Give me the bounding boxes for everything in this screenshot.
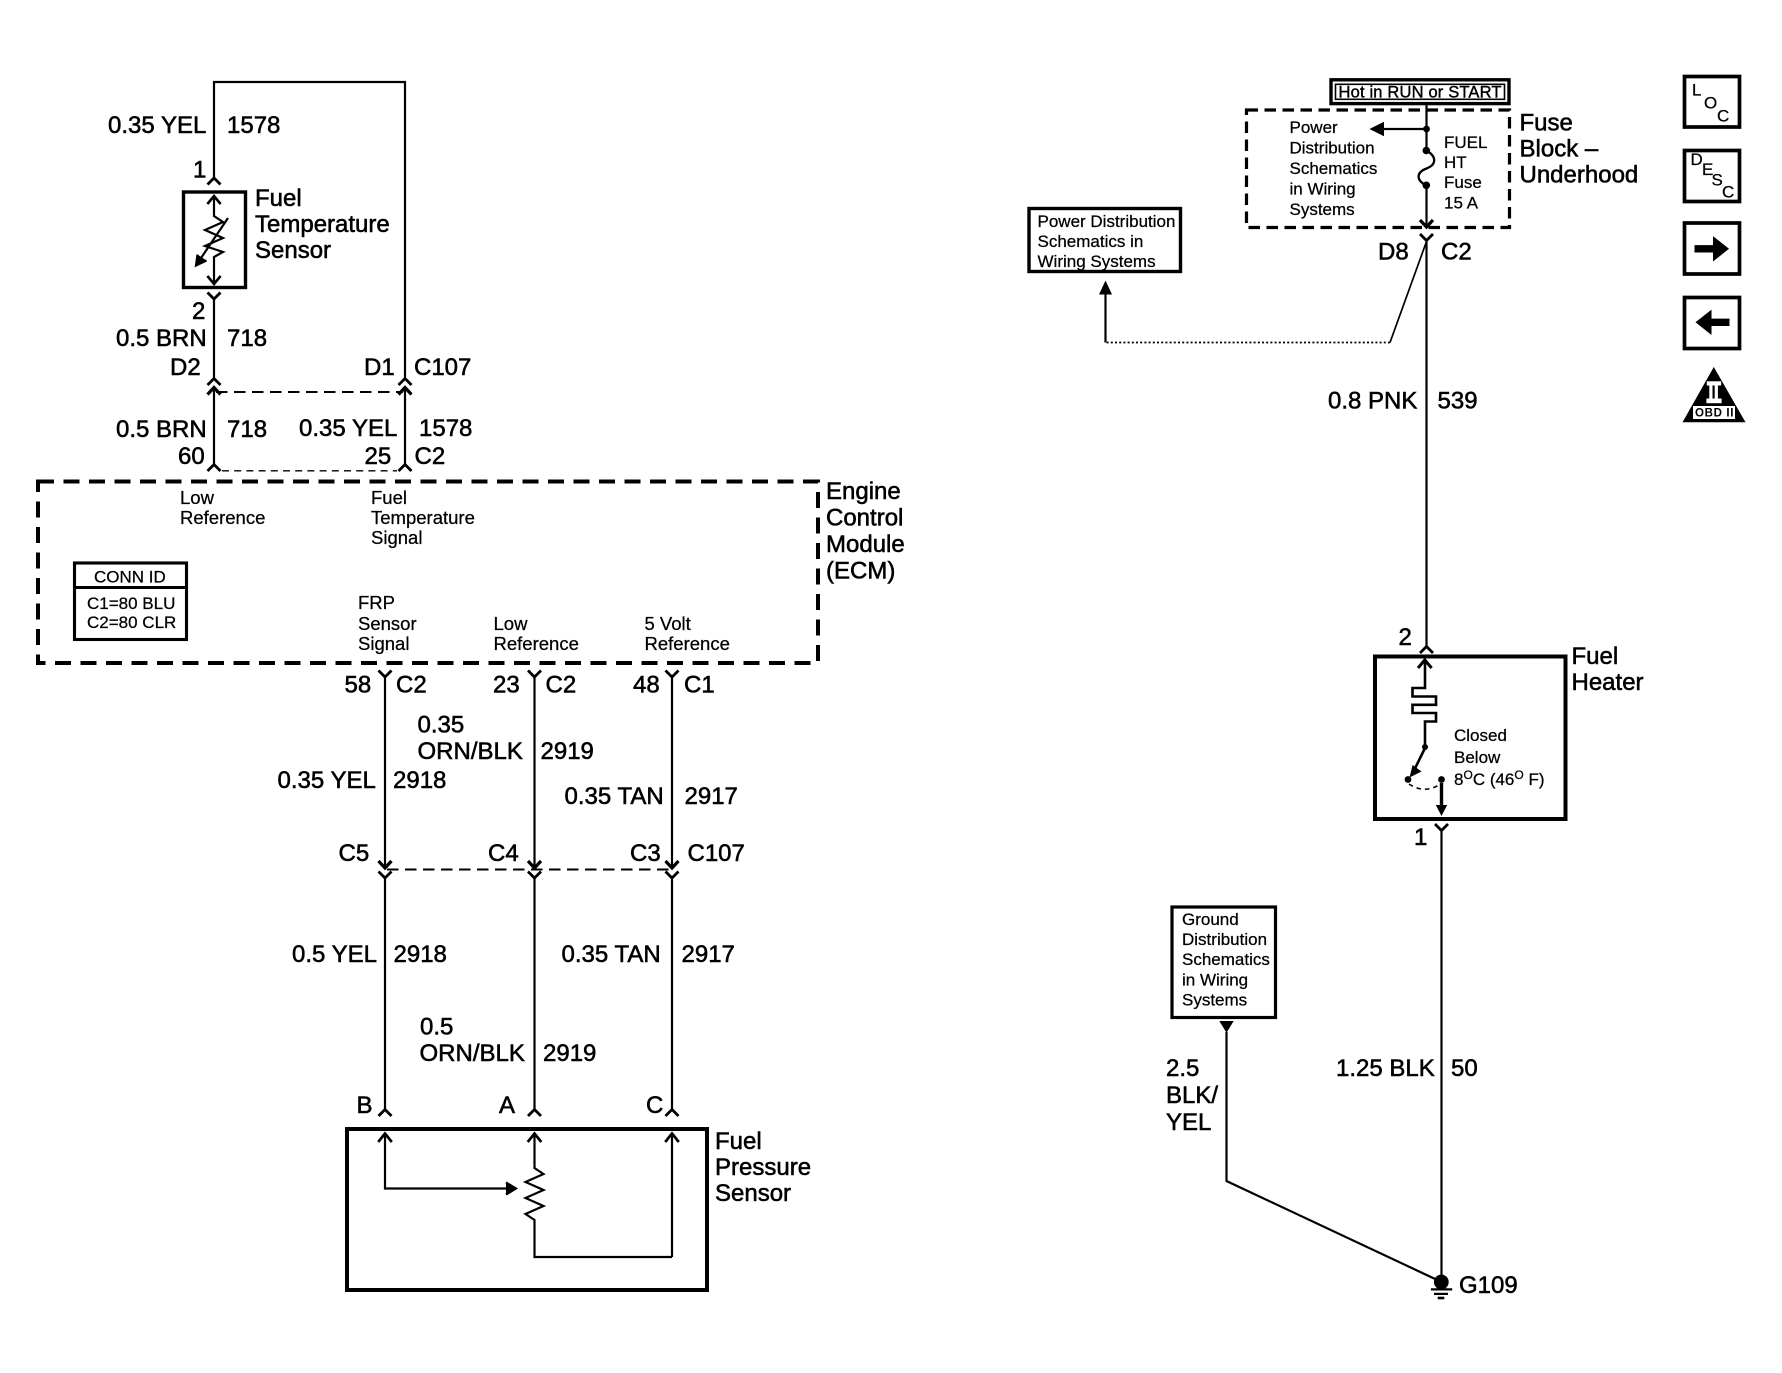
svg-text:C107: C107 <box>414 354 471 381</box>
svg-text:in Wiring: in Wiring <box>1290 180 1356 199</box>
fuse FUEL HT 15A <box>1423 147 1431 155</box>
CONN ID table <box>75 563 187 640</box>
svg-text:2918: 2918 <box>394 941 447 968</box>
svg-text:C107: C107 <box>688 840 745 867</box>
svg-text:5 Volt: 5 Volt <box>645 613 691 634</box>
connector caret pin A <box>528 1110 541 1117</box>
svg-text:Systems: Systems <box>1182 991 1247 1010</box>
svg-text:ORN/BLK: ORN/BLK <box>420 1040 525 1067</box>
svg-text:A: A <box>499 1092 515 1119</box>
svg-text:0.35 TAN: 0.35 TAN <box>562 941 661 968</box>
thermistor symbol <box>196 196 228 284</box>
connector caret pin 25 <box>399 465 412 472</box>
svg-text:Fuse: Fuse <box>1520 110 1573 137</box>
svg-text:1.25 BLK: 1.25 BLK <box>1336 1055 1435 1082</box>
svg-text:Systems: Systems <box>1290 200 1355 219</box>
svg-text:Distribution: Distribution <box>1182 930 1267 949</box>
svg-text:58: 58 <box>345 672 372 699</box>
connector fork D8 <box>1420 234 1433 241</box>
connector fork pin 48 <box>666 671 679 678</box>
svg-text:C2: C2 <box>415 443 446 470</box>
svg-text:Power Distribution: Power Distribution <box>1038 212 1176 231</box>
fuel heater box <box>1375 657 1566 820</box>
svg-text:48: 48 <box>633 672 660 699</box>
svg-text:Engine: Engine <box>826 478 901 505</box>
svg-text:OBD II: OBD II <box>1695 408 1734 420</box>
svg-text:25: 25 <box>365 443 392 470</box>
svg-text:Temperature: Temperature <box>371 507 475 528</box>
svg-text:Signal: Signal <box>358 633 409 654</box>
fuel temperature sensor box <box>184 192 246 288</box>
in-line connector C107 dashed line (lower) <box>387 869 670 871</box>
svg-text:1: 1 <box>193 157 206 184</box>
svg-text:1: 1 <box>1414 824 1427 851</box>
svg-text:O: O <box>1704 94 1717 113</box>
wire: D1 to ECM pin 25 <box>404 387 406 465</box>
connector C107 upper: caret D2 <box>208 379 221 386</box>
svg-text:Fuel: Fuel <box>371 487 407 508</box>
wire 2917 lower <box>671 878 673 1110</box>
icon arrow right <box>1685 223 1740 274</box>
in-line connector C107 dashed line (upper) <box>216 391 403 393</box>
svg-text:50: 50 <box>1451 1055 1478 1082</box>
svg-text:2917: 2917 <box>682 941 735 968</box>
ECM connector C2 thin dashed line <box>222 470 397 472</box>
svg-text:Reference: Reference <box>180 507 265 528</box>
FPS internal wire B with up arrow and right arrow <box>378 1134 392 1143</box>
svg-text:Reference: Reference <box>645 633 730 654</box>
svg-text:Power: Power <box>1290 118 1339 137</box>
wire 2918 upper <box>384 677 386 866</box>
wire 2918 lower <box>384 878 386 1110</box>
connector fork pin 23 <box>528 671 541 678</box>
svg-text:Fuel: Fuel <box>1572 643 1619 670</box>
svg-text:D8: D8 <box>1378 239 1409 266</box>
wire: D2 to ECM pin 60 <box>213 387 215 465</box>
svg-text:C2: C2 <box>1441 239 1472 266</box>
svg-text:0.5 BRN: 0.5 BRN <box>116 416 207 443</box>
svg-text:BLK/: BLK/ <box>1166 1082 1218 1109</box>
svg-text:C2: C2 <box>546 672 577 699</box>
svg-text:2.5: 2.5 <box>1166 1055 1199 1082</box>
connector caret pin C <box>666 1110 679 1117</box>
power distribution schematics ref box <box>1029 209 1181 272</box>
wire 2919 lower <box>533 878 535 1110</box>
fuse block dashed box <box>1247 110 1510 228</box>
svg-text:C3: C3 <box>630 840 661 867</box>
wire: fuel temp sensor pin2 to D2 <box>213 299 215 378</box>
svg-text:C: C <box>1722 183 1734 202</box>
svg-text:0.5 YEL: 0.5 YEL <box>292 941 377 968</box>
heater element <box>1413 661 1437 748</box>
branch arrow to power distribution text <box>1383 128 1424 130</box>
svg-text:15 A: 15 A <box>1444 194 1479 213</box>
FPS internal wire C <box>665 1134 679 1143</box>
wire 50 to ground <box>1440 831 1442 1283</box>
svg-text:0.35 TAN: 0.35 TAN <box>565 783 664 810</box>
icon LOC <box>1685 77 1740 128</box>
svg-text:2: 2 <box>192 298 205 325</box>
svg-text:Sensor: Sensor <box>255 237 331 264</box>
svg-text:CONN ID: CONN ID <box>94 568 166 587</box>
svg-text:718: 718 <box>227 416 267 443</box>
svg-text:Fuse: Fuse <box>1444 173 1482 192</box>
svg-text:C: C <box>1717 107 1729 126</box>
branch horizontal dotted <box>1106 342 1391 344</box>
svg-text:G109: G109 <box>1459 1272 1518 1299</box>
svg-text:C1: C1 <box>684 672 715 699</box>
svg-text:Temperature: Temperature <box>255 211 390 238</box>
icon DESC <box>1685 151 1740 202</box>
connector fork pin 1 <box>1435 824 1448 831</box>
svg-text:2917: 2917 <box>685 783 738 810</box>
svg-text:L: L <box>1692 81 1701 100</box>
svg-text:539: 539 <box>1438 388 1478 415</box>
svg-text:Block –: Block – <box>1520 136 1599 163</box>
wire fuse to D8 with arrow <box>1425 186 1427 227</box>
svg-text:C1=80 BLU: C1=80 BLU <box>87 594 175 613</box>
triangle under ground ref box <box>1219 1021 1233 1033</box>
svg-text:Sensor: Sensor <box>715 1180 791 1207</box>
connector C107 upper: arrow up D1 <box>399 388 412 395</box>
svg-text:2918: 2918 <box>393 767 446 794</box>
wire 2.5 BLK/YEL <box>1227 1032 1442 1282</box>
wire 2919 upper <box>533 677 535 866</box>
wire 539 <box>1425 242 1427 647</box>
svg-text:in Wiring: in Wiring <box>1182 971 1248 990</box>
thermal switch <box>1422 744 1428 750</box>
connector caret pin 2 <box>1420 647 1433 654</box>
svg-text:FRP: FRP <box>358 592 395 613</box>
svg-text:Reference: Reference <box>494 633 579 654</box>
svg-text:2919: 2919 <box>541 738 594 765</box>
ground distribution ref box <box>1172 907 1276 1018</box>
svg-text:Module: Module <box>826 531 905 558</box>
svg-text:C2=80 CLR: C2=80 CLR <box>87 613 176 632</box>
wire 2917 upper <box>671 677 673 866</box>
switch output arrow down <box>1440 783 1443 807</box>
svg-text:Schematics: Schematics <box>1182 950 1270 969</box>
svg-text:D2: D2 <box>170 354 201 381</box>
svg-text:0.8 PNK: 0.8 PNK <box>1328 388 1417 415</box>
svg-text:Low: Low <box>180 487 215 508</box>
svg-text:(ECM): (ECM) <box>826 558 895 585</box>
ECM dashed box <box>38 482 818 664</box>
connector fork pin 2 <box>208 293 221 300</box>
svg-text:Hot in RUN or START: Hot in RUN or START <box>1339 84 1502 102</box>
svg-text:D1: D1 <box>364 354 395 381</box>
svg-text:B: B <box>357 1092 373 1119</box>
svg-text:Pressure: Pressure <box>715 1154 811 1181</box>
connector caret pin 1 <box>208 178 221 185</box>
svg-text:C: C <box>646 1092 663 1119</box>
svg-text:23: 23 <box>493 672 520 699</box>
svg-text:0.35: 0.35 <box>418 712 465 739</box>
svg-text:C5: C5 <box>339 840 370 867</box>
ground G109 <box>1434 1275 1449 1290</box>
svg-text:1578: 1578 <box>419 415 472 442</box>
svg-text:Sensor: Sensor <box>358 613 417 634</box>
svg-text:HT: HT <box>1444 153 1467 172</box>
connector C107 lower: arrows down <box>379 861 392 868</box>
svg-text:Control: Control <box>826 505 903 532</box>
connector C107 upper: caret D1 <box>399 379 412 386</box>
svg-text:ORN/BLK: ORN/BLK <box>418 738 523 765</box>
svg-text:Low: Low <box>494 613 529 634</box>
branch vertical with arrowhead to box <box>1104 294 1106 343</box>
fuel pressure sensor box <box>347 1129 707 1290</box>
icon OBD II triangle <box>1683 367 1746 422</box>
svg-text:Signal: Signal <box>371 527 422 548</box>
FPS internal resistor wire A <box>528 1134 542 1143</box>
svg-text:YEL: YEL <box>1166 1109 1211 1136</box>
branch diagonal to power distribution ref box <box>1390 242 1427 343</box>
connector caret pin B <box>379 1110 392 1117</box>
svg-text:Fuel: Fuel <box>255 185 302 212</box>
junction dot <box>1423 126 1430 133</box>
svg-text:FUEL: FUEL <box>1444 133 1487 152</box>
svg-text:2919: 2919 <box>543 1040 596 1067</box>
svg-text:0.35 YEL: 0.35 YEL <box>299 415 397 442</box>
connector C107 upper: arrow up D2 <box>208 388 221 395</box>
svg-text:718: 718 <box>227 325 267 352</box>
svg-text:Distribution: Distribution <box>1290 139 1375 158</box>
svg-text:0.35 YEL: 0.35 YEL <box>108 112 206 139</box>
svg-text:0.5 BRN: 0.5 BRN <box>116 325 207 352</box>
svg-text:Schematics in: Schematics in <box>1038 232 1144 251</box>
svg-text:Fuel: Fuel <box>715 1128 762 1155</box>
svg-text:Heater: Heater <box>1572 669 1644 696</box>
svg-text:0.35 YEL: 0.35 YEL <box>278 767 376 794</box>
svg-text:60: 60 <box>178 443 205 470</box>
svg-text:Wiring Systems: Wiring Systems <box>1038 252 1156 271</box>
heater internal: up arrow <box>1418 660 1432 668</box>
svg-text:Closed: Closed <box>1454 726 1507 745</box>
svg-text:Ground: Ground <box>1182 910 1239 929</box>
svg-text:2: 2 <box>1399 624 1412 651</box>
svg-text:C4: C4 <box>488 840 519 867</box>
connector caret pin 60 <box>208 465 221 472</box>
svg-text:Below: Below <box>1454 748 1501 767</box>
svg-text:Underhood: Underhood <box>1520 162 1639 189</box>
wire 1578 top loop <box>214 82 405 378</box>
Hot in RUN or START box <box>1331 80 1509 104</box>
icon arrow left <box>1685 298 1740 349</box>
svg-text:D: D <box>1691 150 1703 169</box>
connector C107 lower: forks <box>379 872 392 879</box>
svg-text:C2: C2 <box>396 672 427 699</box>
svg-text:0.5: 0.5 <box>420 1014 453 1041</box>
wire from hot box to junction <box>1425 104 1427 152</box>
svg-text:Schematics: Schematics <box>1290 159 1378 178</box>
connector fork pin 58 <box>379 671 392 678</box>
svg-text:1578: 1578 <box>227 112 280 139</box>
